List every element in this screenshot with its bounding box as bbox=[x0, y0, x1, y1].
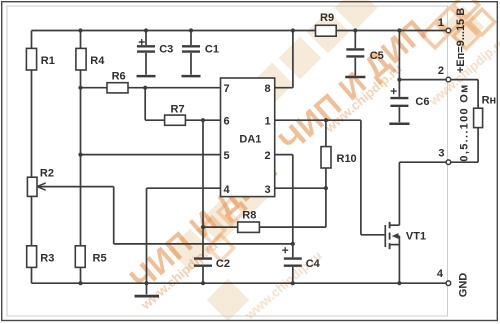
resistor R7 bbox=[165, 115, 186, 125]
svg-text:C5: C5 bbox=[370, 50, 384, 62]
resistor R8 bbox=[238, 222, 260, 232]
wire R2 wiper arrowhead bbox=[37, 183, 46, 190]
terminal 4 bbox=[446, 281, 451, 286]
ground under C6 bbox=[389, 122, 409, 125]
capacitor C6 plates bbox=[390, 98, 408, 106]
terminal 1 bbox=[446, 28, 451, 33]
wire pin 6 column to C2 bbox=[202, 120, 204, 283]
wire terminal2 node bbox=[399, 31, 478, 80]
wire terminal3 row to drain bbox=[399, 162, 478, 225]
svg-text:DA1: DA1 bbox=[239, 134, 261, 146]
svg-text:5: 5 bbox=[224, 150, 230, 162]
svg-text:C2: C2 bbox=[216, 258, 230, 270]
svg-text:R10: R10 bbox=[337, 153, 357, 165]
svg-text:4: 4 bbox=[437, 268, 444, 280]
wire R8 link pin3 to pin6 node bbox=[203, 188, 326, 227]
svg-text:4: 4 bbox=[224, 184, 231, 196]
svg-text:C6: C6 bbox=[415, 96, 429, 108]
watermark text band lower tile bbox=[123, 150, 325, 323]
resistor R1 bbox=[26, 48, 36, 70]
svg-text:1: 1 bbox=[265, 116, 271, 128]
svg-text:6: 6 bbox=[224, 116, 230, 128]
wire pin 6 row bbox=[145, 119, 220, 121]
op-amp U1 / IC DA1 box bbox=[221, 78, 275, 197]
wire pin 5 row bbox=[81, 154, 221, 156]
wire R10 column bbox=[325, 120, 327, 188]
terminal 2 bbox=[446, 77, 451, 82]
resistor R6 bbox=[107, 83, 128, 93]
svg-text:R6: R6 bbox=[112, 71, 126, 83]
wire top rail bbox=[32, 30, 449, 32]
svg-text:1: 1 bbox=[438, 17, 444, 29]
svg-text:7: 7 bbox=[224, 83, 230, 95]
wire left column R1-R2-R3 bbox=[31, 31, 33, 284]
ground under C5 bbox=[345, 76, 365, 79]
wire pin 8 to top rail bbox=[275, 31, 293, 88]
plus sign C4 bbox=[282, 247, 288, 253]
ground main symbol bbox=[146, 283, 148, 294]
svg-text:R7: R7 bbox=[171, 104, 185, 116]
resistor R2 (trimmer) bbox=[27, 177, 37, 196]
svg-text:2: 2 bbox=[438, 65, 444, 77]
resistor R10 bbox=[321, 147, 331, 168]
svg-text:C1: C1 bbox=[205, 44, 219, 56]
svg-text:R5: R5 bbox=[93, 252, 107, 264]
svg-text:+Eп=9...15 В: +Eп=9...15 В bbox=[455, 8, 467, 73]
capacitor C1 plates bbox=[182, 46, 200, 51]
wire R7 drop bbox=[144, 88, 146, 121]
watermark text band upper tile bbox=[272, 0, 500, 159]
svg-text:R1: R1 bbox=[41, 55, 55, 67]
plus sign C6 bbox=[391, 88, 397, 94]
resistor R9 bbox=[316, 25, 337, 36]
capacitor C5 plates bbox=[346, 49, 364, 56]
terminal 3 bbox=[446, 160, 451, 165]
wire C1 column bbox=[190, 31, 192, 75]
wire pin 1 to gate bbox=[275, 120, 386, 235]
svg-text:VT1: VT1 bbox=[406, 231, 426, 243]
wire pin 4 column to ground bbox=[146, 188, 148, 283]
svg-text:2: 2 bbox=[265, 150, 271, 162]
svg-text:R9: R9 bbox=[320, 12, 334, 24]
svg-text:C4: C4 bbox=[306, 258, 321, 270]
plus sign C3 bbox=[139, 39, 145, 45]
capacitor C2 plates bbox=[194, 259, 212, 266]
svg-text:8: 8 bbox=[265, 83, 271, 95]
svg-text:R4: R4 bbox=[90, 55, 105, 67]
svg-text:3: 3 bbox=[265, 184, 271, 196]
wire C6 column bbox=[398, 80, 400, 123]
svg-text:R8: R8 bbox=[242, 210, 256, 222]
svg-text:0,5...100 Ом: 0,5...100 Ом bbox=[458, 83, 470, 161]
svg-text:3: 3 bbox=[438, 148, 444, 160]
resistor R5 bbox=[75, 246, 85, 268]
wire pin 2 to C4 bbox=[275, 155, 293, 284]
ground under C1 bbox=[182, 75, 201, 78]
wire Rn column bbox=[477, 80, 479, 163]
svg-text:R3: R3 bbox=[40, 252, 54, 264]
svg-text:R2: R2 bbox=[40, 167, 54, 179]
wire pin 4 row bbox=[147, 187, 221, 189]
capacitor C4 plates bbox=[284, 259, 302, 266]
node junction dots bbox=[78, 28, 401, 285]
wire R4-R5 column bbox=[80, 31, 82, 284]
ground under C3 bbox=[137, 75, 156, 78]
wire C3 column bbox=[145, 31, 147, 75]
wire pin 3 row bbox=[275, 187, 326, 189]
transistor Q1 / MOSFET VT1 bbox=[385, 222, 399, 283]
resistor R4 bbox=[76, 48, 86, 70]
resistor Rn load bbox=[474, 108, 483, 127]
svg-text:GND: GND bbox=[457, 273, 469, 298]
resistor R3 bbox=[27, 246, 37, 268]
capacitor C3 plates bbox=[137, 46, 155, 51]
wire R6 row pin 7 bbox=[81, 87, 221, 89]
wire R2 wiper to pin2 node bbox=[37, 187, 293, 244]
wire bottom ground rail bbox=[32, 282, 449, 284]
svg-text:C3: C3 bbox=[159, 44, 173, 56]
watermark beige diamonds (decor) bbox=[169, 0, 484, 321]
wire C5 column bbox=[354, 31, 356, 76]
svg-text:Rн: Rн bbox=[482, 94, 497, 106]
